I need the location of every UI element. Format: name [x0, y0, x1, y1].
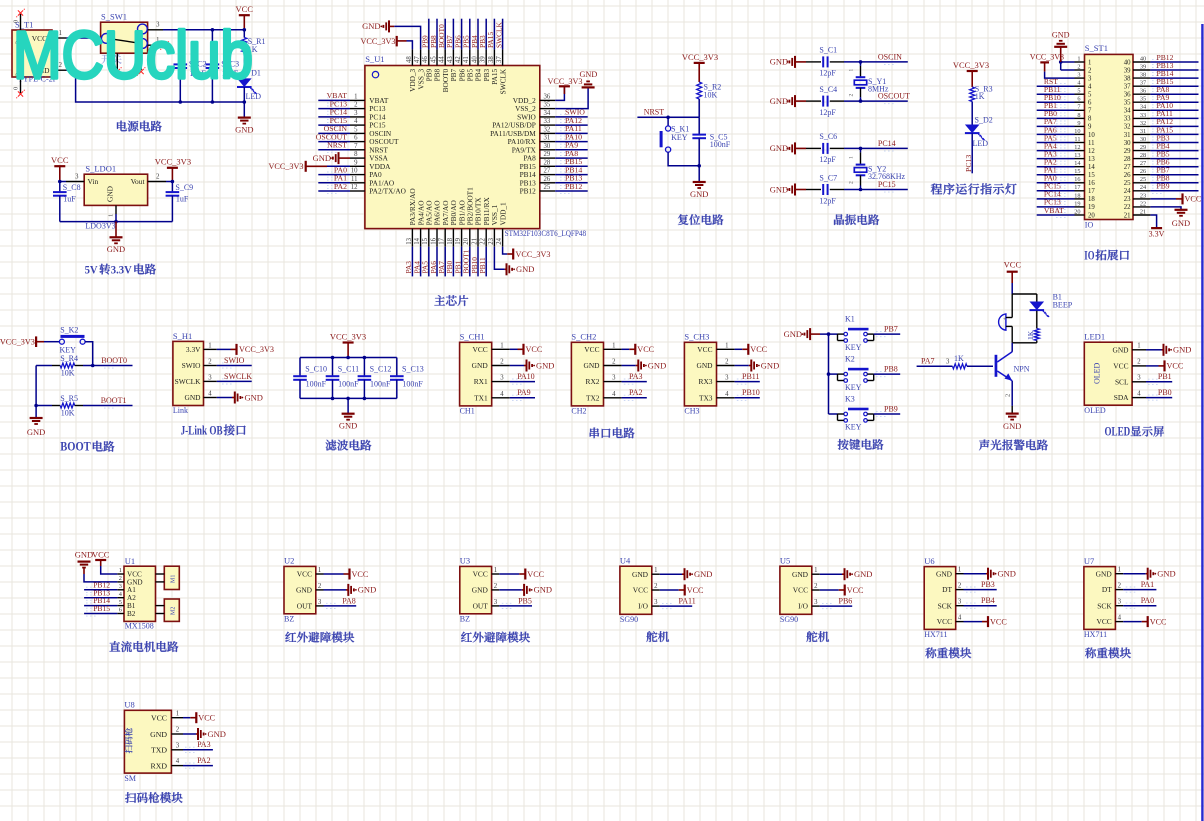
svg-text:PC13: PC13 — [964, 155, 973, 172]
power port VCC scanner — [183, 717, 190, 719]
svg-text:47: 47 — [414, 56, 421, 63]
wire net PA10 — [555, 141, 588, 143]
svg-text:6: 6 — [119, 607, 122, 614]
pin U1 25 PB12 — [540, 190, 555, 192]
pin U6 1 GND — [956, 573, 964, 575]
pin ST1 36 — [1133, 93, 1150, 95]
svg-text:33: 33 — [1124, 116, 1131, 123]
svg-text:PA9: PA9 — [517, 388, 531, 397]
power port VCC CH3 — [735, 348, 743, 350]
svg-text:38: 38 — [488, 56, 495, 63]
svg-text:PB9: PB9 — [1157, 182, 1170, 191]
svg-text:OLED: OLED — [1105, 425, 1131, 439]
svg-text:4: 4 — [1088, 83, 1092, 90]
svg-text:RXD: RXD — [151, 761, 168, 770]
svg-text:RX1: RX1 — [474, 377, 488, 386]
pin U1 47 VSS_3 — [420, 49, 422, 65]
svg-text:VCC_3V3: VCC_3V3 — [953, 60, 989, 70]
svg-text:37: 37 — [496, 56, 503, 63]
svg-text:17: 17 — [1088, 188, 1095, 195]
wire net OSCIN — [844, 61, 908, 63]
capacitor S_C4 12pF — [806, 100, 821, 102]
svg-text:12pF: 12pF — [819, 155, 836, 164]
svg-text:VCC: VCC — [1096, 617, 1111, 626]
wire net PB11 — [735, 381, 760, 383]
svg-text:S_C6: S_C6 — [819, 132, 837, 141]
svg-text:3: 3 — [654, 599, 658, 606]
module U5 servo SG90 — [780, 566, 812, 614]
svg-text:16: 16 — [430, 237, 437, 244]
svg-text:VCC_3V3: VCC_3V3 — [360, 37, 395, 46]
svg-text:42: 42 — [455, 56, 462, 63]
pin ST1 15 — [1075, 174, 1085, 176]
svg-text:BEEP: BEEP — [1053, 301, 1073, 310]
wire net PA5 — [428, 247, 430, 277]
svg-text:SCL: SCL — [1115, 377, 1129, 386]
pin T1 top unconnected — [20, 14, 22, 30]
wire net PB3 — [1150, 142, 1198, 144]
ground GND ST1 pins 1-2 — [1061, 69, 1075, 71]
wire net PA15 — [493, 19, 495, 50]
wire net PB1 — [461, 247, 463, 277]
power port 3.3V ST1 pin 21 — [1150, 215, 1156, 228]
pin U8 2 GND — [171, 733, 183, 735]
wire net PA7 — [917, 365, 953, 367]
svg-text:GND: GND — [632, 570, 649, 579]
pin ST1 11 — [1075, 142, 1085, 144]
svg-text:VCC: VCC — [472, 345, 487, 354]
svg-text:27: 27 — [1140, 160, 1146, 167]
svg-text:PA2: PA2 — [629, 388, 643, 397]
pin U5 3 I/O — [812, 605, 820, 607]
svg-text:1: 1 — [1137, 343, 1140, 350]
ground GND keys — [809, 328, 811, 340]
pin H1 1 3.3V — [204, 348, 217, 350]
pin CH3 1 VCC — [717, 348, 735, 350]
svg-text:1: 1 — [176, 710, 179, 717]
svg-text:36: 36 — [544, 94, 551, 101]
title 扫码枪模块 — [125, 792, 136, 803]
svg-text:SDA: SDA — [1114, 393, 1129, 402]
svg-text:S_K2: S_K2 — [60, 325, 78, 334]
svg-text:35: 35 — [1124, 100, 1131, 107]
svg-text:PA2/TX/AO: PA2/TX/AO — [369, 187, 406, 196]
wire net PB6 — [820, 605, 852, 607]
svg-text:3.3V: 3.3V — [186, 345, 201, 354]
svg-text:1: 1 — [814, 567, 817, 574]
wire net PA7 — [1037, 125, 1075, 127]
svg-text:3.3V: 3.3V — [111, 263, 132, 277]
svg-text:GND: GND — [106, 185, 115, 202]
pin U1 44 BOOT0 — [444, 49, 446, 65]
header S_CH3 — [684, 342, 716, 406]
svg-text:OUT: OUT — [473, 602, 489, 611]
svg-text:PB11: PB11 — [478, 257, 487, 273]
title 声光报警电路 — [979, 440, 990, 451]
svg-text:PC15: PC15 — [878, 180, 896, 189]
svg-text:2: 2 — [1118, 583, 1122, 590]
wire net SWIO — [217, 365, 252, 367]
pin U1 35 VSS_2 — [540, 108, 555, 110]
svg-text:RX3: RX3 — [699, 377, 713, 386]
pin ST1 10 — [1075, 133, 1085, 135]
svg-text:8: 8 — [354, 151, 358, 158]
pin U1 28 PB15 — [540, 165, 555, 167]
svg-text:SWIO: SWIO — [182, 361, 202, 370]
svg-text:10K: 10K — [61, 409, 75, 418]
wire net PA3 — [1037, 158, 1075, 160]
wire VDD_2 to VCC_3V3 — [555, 86, 564, 100]
pin CH2 1 VCC — [604, 348, 622, 350]
ground GND CH3 — [735, 365, 749, 367]
svg-text:19: 19 — [1088, 204, 1095, 211]
pin U1 11 PA1/AO — [350, 182, 365, 184]
pin U1 1 VBAT — [350, 99, 365, 101]
wire net PA11 — [555, 132, 588, 134]
junction LDO ground — [114, 220, 118, 224]
crystal S_Y1 — [860, 62, 862, 66]
resistor S_R3 1K — [970, 87, 975, 102]
pin U6 2 DT — [956, 589, 964, 591]
svg-text:VCC: VCC — [151, 714, 167, 723]
svg-text:U4: U4 — [620, 556, 631, 566]
power port VCC U5 — [820, 589, 839, 591]
svg-text:1: 1 — [725, 342, 728, 349]
svg-text:VCC: VCC — [198, 714, 215, 723]
svg-text:28: 28 — [1140, 152, 1146, 159]
svg-text:HX711: HX711 — [924, 630, 947, 639]
svg-text:GND: GND — [536, 360, 554, 370]
svg-text:VCC_3V3: VCC_3V3 — [268, 162, 303, 171]
svg-text:VCC: VCC — [92, 550, 110, 560]
svg-text:21: 21 — [1140, 208, 1146, 215]
power port VCC U7 — [1123, 621, 1142, 623]
wire net PA8 — [555, 157, 588, 159]
svg-text:NRST: NRST — [644, 108, 665, 117]
svg-text:M2: M2 — [171, 607, 177, 615]
ground GND oled — [1146, 349, 1162, 351]
svg-text:4: 4 — [500, 391, 504, 398]
capacitor S_C9 1uF — [171, 182, 173, 193]
svg-text:4: 4 — [958, 615, 962, 622]
wire net PA12 — [1150, 125, 1198, 127]
ground GND U7 — [1123, 573, 1146, 575]
svg-text:A1: A1 — [127, 586, 136, 594]
wire net PC15 — [1037, 190, 1075, 192]
svg-text:IO: IO — [1084, 248, 1094, 262]
svg-text:3: 3 — [1088, 75, 1092, 82]
svg-text:16: 16 — [1088, 180, 1095, 187]
pin ST1 1 — [1075, 61, 1085, 63]
svg-text:5: 5 — [1077, 88, 1080, 95]
svg-text:2: 2 — [814, 583, 818, 590]
svg-text:PB10: PB10 — [742, 388, 760, 397]
pin ST1 37 — [1133, 85, 1150, 87]
pin ST1 40 — [1133, 61, 1150, 63]
pins U1 to M2 — [156, 605, 165, 607]
svg-text:TXD: TXD — [151, 746, 167, 755]
pin U5 2 VCC — [812, 589, 820, 591]
pin U1 2 PC13 — [350, 108, 365, 110]
svg-text:3: 3 — [318, 599, 322, 606]
wire net PA10 — [510, 381, 535, 383]
wire net PA8 — [1150, 93, 1198, 95]
svg-text:1: 1 — [354, 94, 357, 101]
pin CH3 4 TX3 — [717, 397, 735, 399]
pin U1 motor 5 B1 — [117, 605, 124, 607]
header S_CH1 — [460, 342, 492, 406]
svg-text:2: 2 — [654, 583, 658, 590]
wire filter bottom bus — [300, 397, 397, 399]
svg-text:GND: GND — [770, 184, 788, 194]
svg-text:3: 3 — [1137, 375, 1141, 382]
ground GND U3 — [499, 589, 522, 591]
diode LED alarm — [1036, 294, 1038, 302]
regulator S_LDO1 LDO3V3 — [84, 174, 147, 205]
svg-text:24: 24 — [1140, 184, 1147, 191]
svg-text:PA1: PA1 — [1141, 580, 1155, 589]
wire filter top bus — [300, 357, 397, 359]
ground GND scanner — [183, 733, 196, 735]
svg-text:GND: GND — [1157, 569, 1175, 579]
wire net PB13 — [555, 182, 588, 184]
wire net PA2 — [318, 190, 350, 192]
svg-text:GND: GND — [761, 360, 779, 370]
no-ERC cross T1 bottom — [18, 91, 23, 96]
svg-text:6: 6 — [354, 135, 358, 142]
module U3 IR — [460, 566, 492, 613]
pin LED1 4 SDA — [1132, 397, 1146, 399]
svg-text:9: 9 — [1077, 120, 1080, 127]
svg-text:GND: GND — [472, 586, 489, 595]
svg-text:GND: GND — [472, 361, 489, 370]
pin ST1 8 — [1075, 117, 1085, 119]
svg-text:3: 3 — [1077, 72, 1080, 79]
svg-text:3: 3 — [354, 110, 358, 117]
svg-text:VCC: VCC — [297, 570, 312, 579]
svg-text:3.3V: 3.3V — [1149, 230, 1165, 239]
pin ST1 35 — [1133, 101, 1150, 103]
svg-text:VCC: VCC — [1004, 260, 1022, 270]
svg-text:PB11: PB11 — [742, 372, 760, 381]
wire LED to GND — [243, 87, 245, 118]
title 舵机 — [806, 631, 817, 642]
pin ST1 34 — [1133, 109, 1150, 111]
power port VCC oled — [1146, 365, 1159, 367]
svg-text:1: 1 — [612, 342, 615, 349]
wire net PB10 — [1037, 101, 1075, 103]
pin U1 motor 6 B2 — [117, 613, 124, 615]
wire net PB12 — [84, 589, 117, 591]
ground GND filter — [347, 398, 349, 413]
wire net NRST — [318, 149, 350, 151]
display LED1 OLED — [1084, 342, 1132, 405]
svg-text:BOOT: BOOT — [60, 440, 91, 454]
svg-text:8: 8 — [1088, 116, 1092, 123]
wire R3 to LED D2 — [971, 102, 973, 125]
pin U3 2 GND — [492, 589, 500, 591]
svg-text:GND: GND — [1173, 345, 1191, 355]
svg-text:CH2: CH2 — [571, 406, 586, 415]
svg-text:PA11: PA11 — [679, 597, 696, 606]
svg-text:A2: A2 — [127, 594, 136, 602]
wire net PA11 — [1150, 117, 1198, 119]
svg-text:1: 1 — [654, 567, 657, 574]
svg-text:100nF: 100nF — [370, 380, 391, 389]
svg-text:6: 6 — [1077, 96, 1080, 103]
svg-text:4: 4 — [1137, 390, 1141, 397]
svg-text:48: 48 — [406, 56, 413, 63]
svg-text:MCUclub: MCUclub — [13, 18, 253, 93]
crystal S_Y2 — [860, 148, 862, 152]
pin U1 43 PB7 — [452, 49, 454, 65]
svg-text:16: 16 — [1074, 176, 1080, 183]
svg-text:U1: U1 — [125, 556, 135, 566]
pin U1 13 PA3/RX/AO — [411, 229, 413, 247]
svg-text:VCC_3V3: VCC_3V3 — [0, 337, 35, 346]
pin SW1 bottom 2 unconnected — [116, 53, 118, 70]
svg-text:MX1508: MX1508 — [125, 621, 154, 630]
svg-text:22: 22 — [480, 237, 487, 244]
wire net PC14 — [318, 116, 350, 118]
resistor S_R4 10K — [36, 365, 52, 367]
wire GND to motor pin2 — [84, 574, 117, 582]
pin LED1 3 SCL — [1132, 381, 1146, 383]
svg-text:27: 27 — [1124, 164, 1131, 171]
svg-text:1: 1 — [108, 214, 115, 217]
svg-text:BOOT0: BOOT0 — [101, 356, 127, 365]
junction LDO output — [171, 180, 175, 184]
pin U8 3 TXD — [171, 749, 183, 751]
svg-text:28: 28 — [544, 159, 551, 166]
pin ST1 12 — [1075, 150, 1085, 152]
wire net PB7 — [1150, 174, 1198, 176]
svg-text:8MHz: 8MHz — [868, 85, 889, 94]
wire net PA3 — [411, 247, 413, 277]
pin ST1 18 — [1075, 198, 1085, 200]
svg-text:GND: GND — [580, 70, 598, 79]
svg-text:B2: B2 — [127, 610, 136, 618]
svg-text:2: 2 — [354, 102, 358, 109]
junction C3 top — [211, 28, 215, 32]
svg-text:VCC: VCC — [937, 617, 952, 626]
ground GND boot — [30, 417, 43, 419]
key S_K2 — [44, 341, 59, 343]
svg-text:46: 46 — [422, 56, 429, 63]
pin U1 42 PB6 — [461, 49, 463, 65]
svg-text:KEY: KEY — [845, 383, 862, 392]
wire net PB14 — [1150, 77, 1198, 79]
svg-text:19: 19 — [455, 237, 462, 244]
capacitor S_C3 — [211, 30, 213, 65]
svg-text:U3: U3 — [460, 556, 470, 566]
pin U7 1 GND — [1115, 573, 1123, 575]
svg-text:1: 1 — [494, 567, 497, 574]
pin U1 31 PA10/RX — [540, 141, 555, 143]
power port VCC U6 — [964, 621, 983, 623]
title 复位电路 — [678, 214, 689, 225]
power port VCC_3V3 jlink — [217, 348, 231, 350]
svg-text:PB1: PB1 — [1158, 372, 1172, 381]
pin U1 12 PA2/TX/AO — [350, 190, 365, 192]
wire net OSCOUT — [318, 141, 350, 143]
svg-text:RX2: RX2 — [586, 377, 600, 386]
svg-text:1K: 1K — [1026, 330, 1035, 340]
ground GND for S_C4 — [794, 95, 796, 107]
capacitor S_C5 100nF — [698, 117, 700, 134]
key K3 — [848, 408, 869, 411]
junction filter bottom C11 — [331, 397, 335, 401]
svg-text:PA0: PA0 — [1141, 596, 1155, 605]
pin U4 1 GND — [652, 573, 660, 575]
pin CH3 3 RX3 — [717, 381, 735, 383]
junction LED bottom bus — [243, 100, 247, 104]
svg-text:4: 4 — [612, 391, 616, 398]
svg-text:25: 25 — [544, 184, 551, 191]
power port VCC_3V3 at VDD_1 — [507, 253, 513, 255]
svg-text:VCC: VCC — [526, 345, 543, 354]
svg-text:PB12: PB12 — [565, 182, 582, 191]
svg-text:GND: GND — [107, 244, 125, 254]
svg-text:7: 7 — [1088, 108, 1092, 115]
pin H1 4 GND — [204, 397, 217, 399]
svg-text:5: 5 — [354, 126, 358, 133]
pin ST1 14 — [1075, 166, 1085, 168]
pin ST1 25 — [1133, 182, 1150, 184]
svg-text:23: 23 — [1140, 192, 1146, 199]
svg-text:VBAT: VBAT — [1044, 206, 1064, 215]
svg-text:PB12: PB12 — [520, 187, 537, 196]
pin U2 3 OUT — [316, 605, 324, 607]
svg-text:12pF: 12pF — [819, 69, 836, 78]
junction BOOT0 — [91, 364, 95, 368]
pin T1 GND 2 — [52, 69, 66, 71]
junction filter top C12 — [363, 356, 367, 360]
diode S_D1 LED — [237, 78, 252, 87]
svg-text:VCC: VCC — [236, 4, 254, 14]
pin U1 4 PC15 — [350, 124, 365, 126]
pin U1 3 PC14 — [350, 116, 365, 118]
svg-text:21: 21 — [471, 238, 478, 245]
svg-text:2: 2 — [958, 583, 962, 590]
junction crystal OSCIN — [859, 60, 863, 64]
junction crystal PC14 — [859, 147, 863, 151]
svg-text:28: 28 — [1124, 156, 1131, 163]
svg-text:SWCLK: SWCLK — [494, 21, 503, 48]
wire net PB0 — [452, 247, 454, 277]
wire net VBAT — [318, 99, 350, 101]
ground GND U2 — [324, 589, 347, 591]
svg-text:2: 2 — [119, 575, 122, 582]
pin U1 29 PA8 — [540, 157, 555, 159]
junction filter bottom GND — [346, 397, 350, 401]
wire net PA10 — [1150, 109, 1198, 111]
wire net PA15 — [1150, 133, 1198, 135]
pin U1 motor 4 A2 — [117, 597, 124, 599]
svg-text:26: 26 — [544, 176, 551, 183]
svg-text:38: 38 — [1140, 72, 1146, 79]
wire net PA9 — [555, 149, 588, 151]
wire keys bus — [820, 333, 838, 335]
svg-text:45: 45 — [430, 56, 437, 63]
wire net PA2 — [183, 765, 213, 767]
junction LDO input — [58, 180, 62, 184]
svg-text:S_U1: S_U1 — [365, 54, 384, 64]
ground GND at VSS_2 — [582, 86, 595, 88]
header S_ST1 IO — [1085, 54, 1134, 219]
pin U1 37 SWCLK — [502, 49, 504, 65]
svg-text:S_CH2: S_CH2 — [571, 332, 596, 342]
